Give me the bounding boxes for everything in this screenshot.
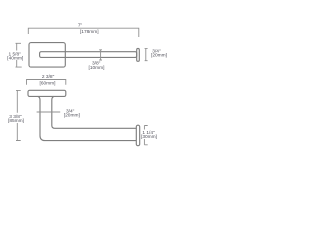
top view end cap: [137, 49, 140, 62]
svg-text:[178mm]: [178mm]: [80, 29, 99, 35]
svg-text:[30mm]: [30mm]: [141, 134, 157, 140]
dimension 3/4" [20mm] leader side view: [37, 111, 61, 113]
svg-text:7": 7": [78, 22, 83, 28]
dimension 1 5/8" [40mm] line: [16, 43, 22, 67]
dimension 3/8" [10mm] line: [99, 50, 102, 60]
svg-text:2 3/8": 2 3/8": [42, 74, 55, 80]
svg-text:[20mm]: [20mm]: [64, 113, 80, 119]
svg-text:[60mm]: [60mm]: [40, 81, 56, 87]
side view post inner edge and arm top: [52, 96, 137, 128]
side view post outer edge and arm bottom: [38, 96, 137, 140]
top view wall plate: [29, 43, 65, 68]
dimension 3 3/8" [85mm] line: [16, 90, 21, 140]
svg-text:[10mm]: [10mm]: [89, 65, 105, 71]
side view wall plate: [28, 90, 66, 96]
dimension 3/4" [20mm] bracket top view: [145, 49, 148, 61]
svg-text:[40mm]: [40mm]: [7, 55, 23, 61]
svg-text:[20mm]: [20mm]: [151, 52, 167, 58]
dimension 7" [178mm] line: [28, 28, 139, 37]
side view end cap: [136, 125, 139, 146]
top view bar arm: [40, 52, 137, 58]
dimension 1 1/4" [30mm] bracket side view: [144, 126, 147, 145]
dimension 2 3/8" [60mm] line: [27, 80, 66, 85]
svg-text:[85mm]: [85mm]: [8, 118, 24, 124]
